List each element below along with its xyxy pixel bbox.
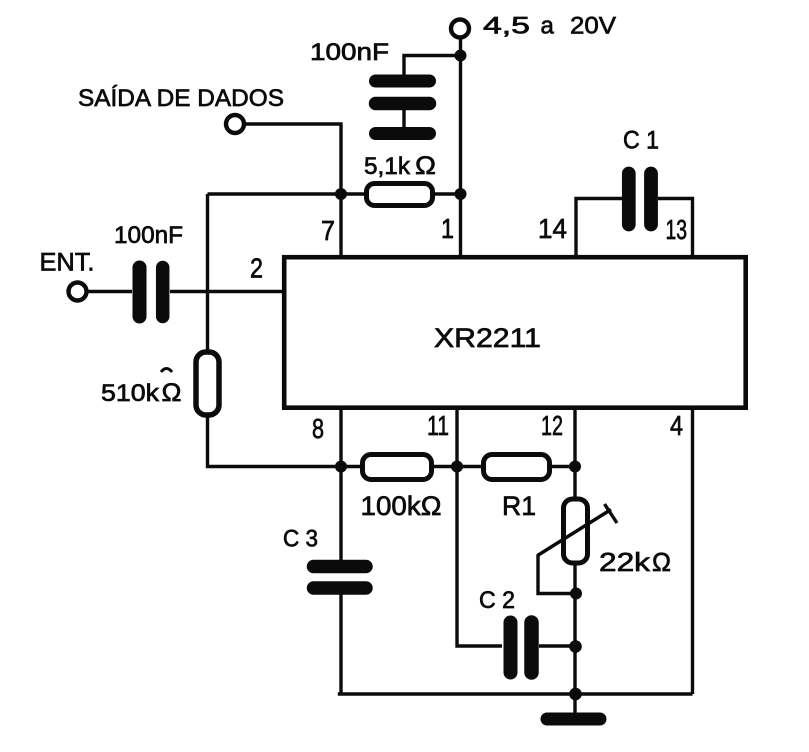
svg-text:100kΩ: 100kΩ [361,491,442,521]
node junction pin 11 [451,461,463,473]
wire left rail vertical lower to pin 8 node [208,415,342,467]
svg-text:ENT.: ENT. [40,249,95,277]
wire supply branch to decoupling cap [404,56,461,81]
svg-text:510k: 510k [101,380,160,407]
potentiometer arrow [538,504,618,556]
wire pin 14 up to C1 [576,199,623,259]
svg-text:R1: R1 [502,491,536,521]
wire supply vertical to pin 1 [459,39,462,258]
svg-text:XR2211: XR2211 [434,323,541,353]
terminal supply 4,5 a 20V [451,13,616,40]
svg-text:SAÍDA DE DADOS: SAÍDA DE DADOS [78,85,284,112]
capacitor 100nF input coupling [114,222,183,317]
svg-text:100nF: 100nF [114,222,183,249]
svg-text:22k: 22k [599,547,651,577]
svg-text:20V: 20V [570,13,616,40]
svg-text:7: 7 [321,215,335,246]
wire below potentiometer [573,563,576,694]
capacitor C3 [283,526,366,589]
wire C2 to pot lower rail [539,644,575,647]
svg-text:5,1k: 5,1k [364,153,411,180]
svg-text:Ω: Ω [415,152,436,180]
capacitor 100nF decoupling (three plates) [310,39,430,134]
node junction C2 [569,640,582,653]
node junction supply/cap [455,50,467,62]
svg-text:13: 13 [666,214,688,245]
wire pin 11 stub [455,407,458,467]
wire left rail vertical upper [206,194,209,352]
ground [547,694,600,719]
wire pin 12 to potentiometer [573,467,576,501]
wire pin 4 down to bottom rail [691,407,694,694]
wire pin 11 down and across to C2 [457,467,502,647]
node junction pin 12 [569,461,581,473]
svg-text:1: 1 [441,213,454,244]
svg-text:a: a [541,13,555,40]
wire data output to pin 7 [246,124,341,258]
node junction ground [569,688,582,701]
svg-text:Ω: Ω [652,547,671,577]
svg-text:11: 11 [427,410,449,441]
node junction pin1/resistor [455,188,467,200]
wire pin 8 stub [339,407,342,467]
potentiometer 22k body [564,499,672,577]
resistor 510k [101,352,219,415]
node junction pin 8 [335,461,347,473]
terminal SAIDA DE DADOS [78,85,284,133]
resistor 5,1k [341,152,461,206]
wire bottom rail [338,692,693,695]
wire C1 to pin 13 [658,199,693,259]
svg-text:C 1: C 1 [623,127,659,155]
node junction wiper [570,588,582,600]
wire input to coupling cap [88,290,132,293]
capacitor C2 [479,587,532,673]
svg-text:14: 14 [538,213,567,244]
wire feedback horizontal to left rail [208,192,342,195]
resistor 100k [341,455,457,522]
wire pin 12 stub [573,407,576,467]
svg-text:4,5: 4,5 [483,13,530,40]
svg-text:C 3: C 3 [283,526,318,553]
wire coupling cap to pin 2 [170,290,285,293]
wire wiper to lower terminal [538,555,575,594]
node junction pin7/resistor [335,188,347,200]
resistor R1 [457,455,575,522]
svg-text:100nF: 100nF [310,39,389,66]
wire pin 8 node down to C3 [339,467,342,561]
svg-text:C 2: C 2 [479,587,515,614]
IC U1 XR2211 body [284,257,746,408]
wire C3 down to bottom rail [339,594,342,694]
svg-text:12: 12 [541,410,563,441]
capacitor C1 [623,127,659,225]
svg-text:Ω: Ω [162,379,182,407]
svg-text:8: 8 [312,413,324,444]
svg-text:2: 2 [250,253,263,284]
terminal ENT input [40,249,95,301]
svg-text:4: 4 [670,410,683,441]
